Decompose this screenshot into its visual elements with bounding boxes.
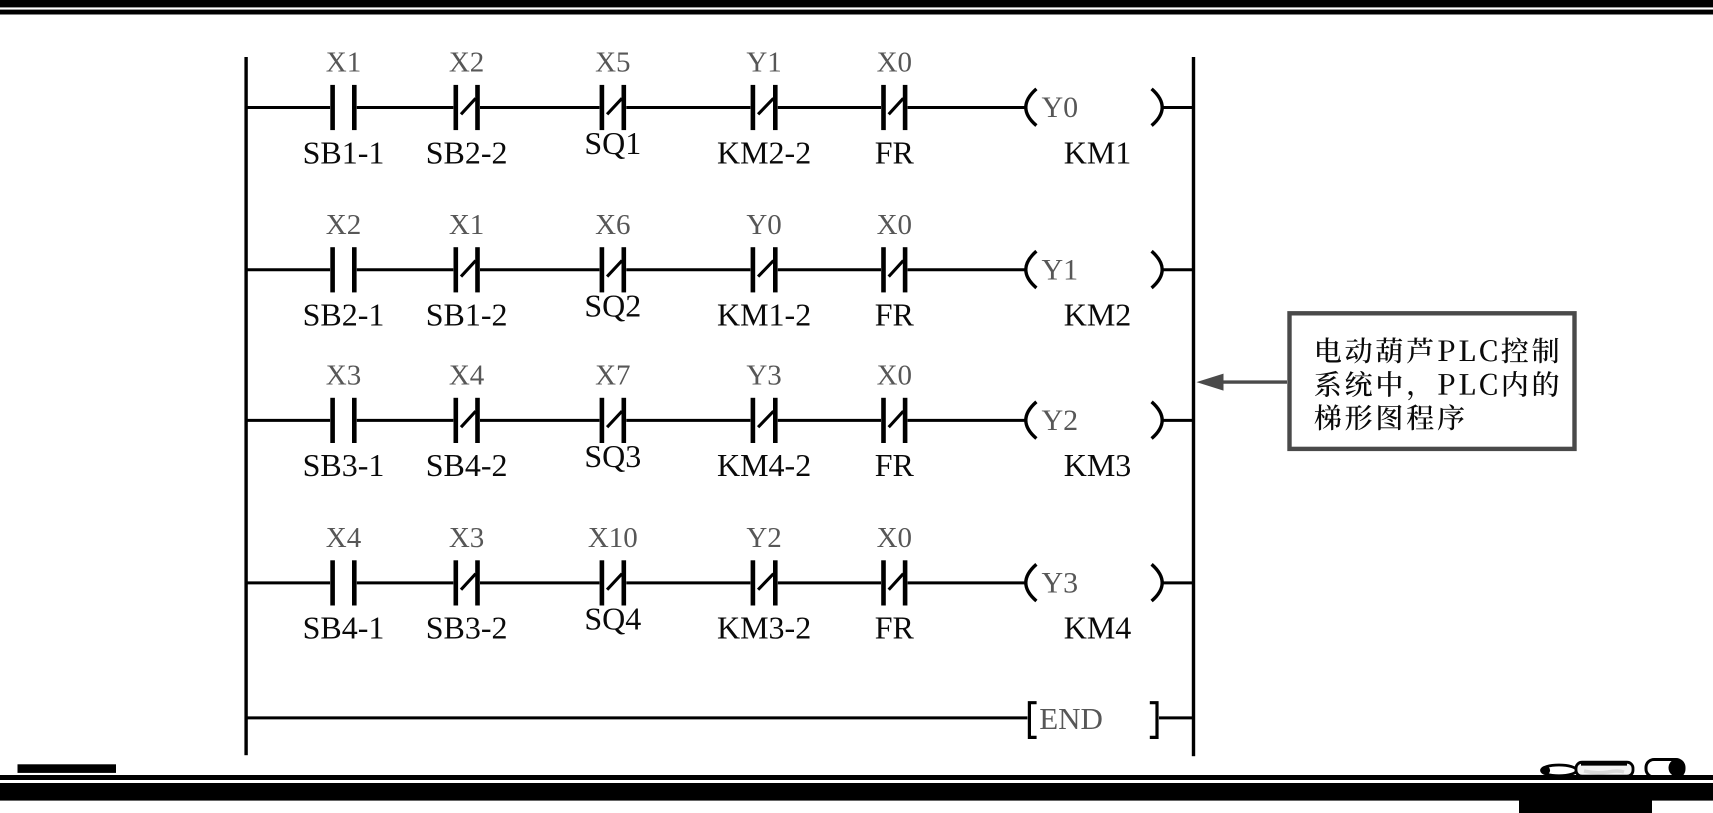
NC contact X1 (SB1-2) rung 2 [426,209,508,333]
NO contact X4 (SB4-1) rung 4 [303,522,385,646]
svg-text:KM3-2: KM3-2 [717,610,811,646]
NC contact X0 (FR) rung 3 [875,360,915,484]
svg-text:SB3-1: SB3-1 [303,447,385,483]
svg-text:X0: X0 [877,522,912,554]
output coil Y3 (KM4) rung 4 [1026,564,1162,645]
bottom tab mark [1519,800,1652,813]
NC contact Y3 (KM4-2) rung 3 [717,360,811,484]
bottom border rule (thin) [0,775,1713,780]
svg-text:SQ2: SQ2 [584,287,641,323]
svg-text:X3: X3 [326,360,361,392]
NC contact X0 (FR) rung 4 [875,522,915,646]
svg-text:KM1: KM1 [1064,134,1132,170]
svg-text:Y3: Y3 [1042,567,1079,600]
NC contact X7 (SQ3) rung 3 [584,360,641,474]
NO contact X2 (SB2-1) rung 2 [303,209,385,333]
END instruction [END] [1029,701,1157,737]
bottom-left black mark [18,764,117,773]
svg-text:X10: X10 [588,522,638,554]
NC contact X0 (FR) rung 2 [875,209,915,333]
output coil Y0 (KM1) rung 1 [1026,89,1162,170]
top border rule (thin) [0,10,1713,15]
NC contact X2 (SB2-2) rung 1 [426,47,508,171]
svg-text:X6: X6 [595,209,630,241]
svg-text:KM1-2: KM1-2 [717,297,811,333]
svg-text:SB1-2: SB1-2 [426,297,508,333]
rung 2 wire segments [246,268,1193,271]
svg-text:SB2-1: SB2-1 [303,297,385,333]
output coil Y1 (KM2) rung 2 [1026,251,1162,332]
svg-text:X4: X4 [326,522,362,554]
svg-text:Y2: Y2 [1042,404,1079,437]
svg-text:FR: FR [875,134,915,170]
bottom border bar (thick) [0,783,1713,801]
svg-text:X4: X4 [449,360,485,392]
svg-text:KM2: KM2 [1064,297,1132,333]
svg-text:FR: FR [875,447,915,483]
svg-text:X1: X1 [326,47,361,79]
right power rail [1192,57,1195,756]
svg-text:KM2-2: KM2-2 [717,134,811,170]
handwritten doodle 2 [1576,762,1633,776]
left power rail [244,57,247,755]
rung 3 wire segments [246,419,1193,422]
svg-text:KM4: KM4 [1064,610,1132,646]
svg-text:Y3: Y3 [746,360,781,392]
svg-text:X5: X5 [595,47,630,79]
svg-text:SQ4: SQ4 [584,601,641,637]
handwritten doodle 3 [1646,759,1685,777]
svg-text:SB2-2: SB2-2 [426,134,508,170]
svg-text:FR: FR [875,297,915,333]
NC contact X6 (SQ2) rung 2 [584,209,641,323]
output coil Y2 (KM3) rung 3 [1026,402,1162,483]
svg-text:X2: X2 [449,47,484,79]
svg-text:Y2: Y2 [746,522,781,554]
svg-text:KM4-2: KM4-2 [717,447,811,483]
annotation text 电动葫芦PLC控制系统中，PLC内的梯形图程序 [1315,337,1559,430]
NC contact X10 (SQ4) rung 4 [584,522,641,636]
handwritten doodle 1 [1541,765,1577,776]
END rung wire [246,716,1193,719]
NC contact X5 (SQ1) rung 1 [584,47,641,161]
svg-text:X0: X0 [877,209,912,241]
svg-text:X2: X2 [326,209,361,241]
svg-text:SQ1: SQ1 [584,125,641,161]
svg-text:SB3-2: SB3-2 [426,610,508,646]
NC contact X3 (SB3-2) rung 4 [426,522,508,646]
NO contact X1 (SB1-1) rung 1 [303,47,385,171]
svg-text:X3: X3 [449,522,484,554]
svg-text:END: END [1039,701,1103,736]
NC contact Y0 (KM1-2) rung 2 [717,209,811,333]
NC contact X0 (FR) rung 1 [875,47,915,171]
svg-text:Y0: Y0 [746,209,781,241]
svg-text:X0: X0 [877,47,912,79]
rung 4 wire segments [246,581,1193,584]
rung 1 wire segments [246,106,1193,109]
svg-text:FR: FR [875,610,915,646]
annotation arrow [1197,374,1288,391]
svg-text:KM3: KM3 [1064,447,1132,483]
NC contact X4 (SB4-2) rung 3 [426,360,508,484]
svg-text:X7: X7 [595,360,630,392]
annotation box [1290,313,1575,449]
NO contact X3 (SB3-1) rung 3 [303,360,385,484]
svg-text:SQ3: SQ3 [584,438,641,474]
svg-text:SB1-1: SB1-1 [303,134,385,170]
svg-text:Y1: Y1 [746,47,781,79]
NC contact Y2 (KM3-2) rung 4 [717,522,811,646]
svg-text:X0: X0 [877,360,912,392]
NC contact Y1 (KM2-2) rung 1 [717,47,811,171]
top border bar (thick) [0,0,1713,7]
svg-text:Y1: Y1 [1042,253,1079,286]
svg-text:Y0: Y0 [1042,91,1079,124]
svg-text:SB4-2: SB4-2 [426,447,508,483]
svg-text:X1: X1 [449,209,484,241]
svg-text:SB4-1: SB4-1 [303,610,385,646]
